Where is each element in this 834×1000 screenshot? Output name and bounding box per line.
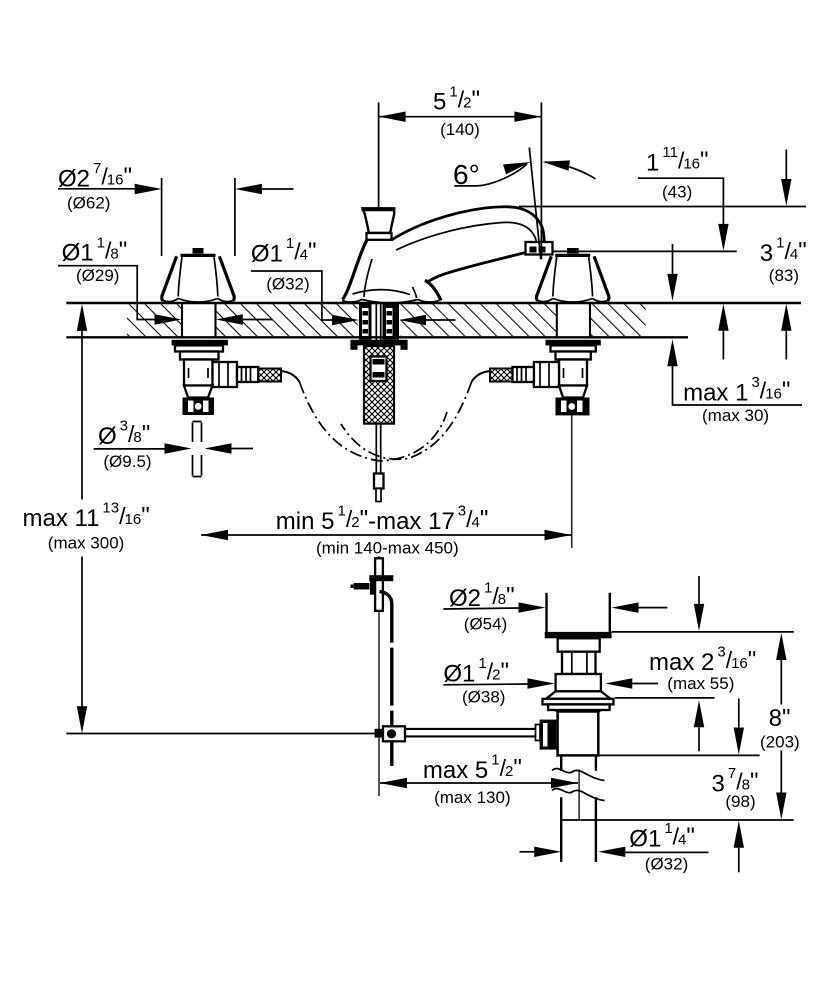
drain scallops bbox=[555, 710, 602, 713]
left valve hex nut bbox=[183, 398, 215, 416]
left handle bell bbox=[162, 255, 234, 302]
spout base bbox=[342, 240, 441, 303]
pipe break waves bbox=[552, 769, 605, 801]
tee bottom reference line bbox=[598, 754, 759, 756]
svg-text:(max 300): (max 300) bbox=[48, 534, 125, 553]
handle width extension lines bbox=[161, 178, 163, 256]
svg-text:(max 55): (max 55) bbox=[667, 674, 734, 693]
aerator bbox=[526, 242, 553, 255]
drain lower band bbox=[548, 704, 610, 710]
right valve body bbox=[559, 360, 587, 386]
spout lift-rod knob bbox=[363, 209, 395, 234]
drain flare bbox=[546, 691, 611, 699]
drain flange cup bbox=[547, 593, 610, 632]
left valve tier3 bbox=[180, 352, 219, 360]
svg-text:6°: 6° bbox=[453, 159, 480, 190]
horizontal rod clamp bbox=[375, 726, 405, 741]
svg-text:(98): (98) bbox=[725, 792, 755, 811]
dim 3 1/4 arrows bbox=[785, 150, 787, 180]
pop-up hole symbol bbox=[193, 422, 202, 477]
right braided hose crimp bbox=[490, 369, 513, 382]
left valve tier2 bbox=[175, 345, 223, 351]
flange underside reference line bbox=[612, 631, 794, 633]
drain tailpipe bbox=[561, 755, 596, 862]
drain threaded tube bbox=[562, 652, 596, 674]
drain neck bbox=[558, 638, 600, 651]
dim 5 1/2 line bbox=[379, 116, 542, 118]
right valve cone bbox=[559, 386, 587, 398]
left hole wall lines bbox=[181, 304, 183, 337]
dim 3 7/8 arrows bbox=[738, 699, 740, 728]
left hose curve solid bbox=[281, 371, 300, 382]
right hose swing curve (dash-dot) bbox=[341, 382, 472, 459]
svg-text:(140): (140) bbox=[440, 120, 480, 139]
spout knob collar bbox=[367, 233, 392, 240]
right valve hex nut bbox=[556, 398, 590, 416]
spout shank left stud bbox=[359, 304, 372, 340]
rod reference line bbox=[66, 733, 374, 735]
pivot nut bbox=[540, 720, 562, 750]
left handle knob bbox=[193, 248, 204, 254]
right handle knob bbox=[567, 248, 579, 254]
drain washer bbox=[543, 699, 614, 705]
right hose curve solid bbox=[472, 371, 491, 382]
svg-text:(Ø32): (Ø32) bbox=[266, 275, 309, 294]
dim max 11 13/16 line bbox=[77, 304, 87, 733]
svg-text:(max 130): (max 130) bbox=[434, 788, 511, 807]
horizontal pop-up rod bbox=[405, 725, 540, 741]
6 degree arc right bbox=[545, 162, 596, 179]
hole for right handle shank bbox=[557, 303, 590, 337]
svg-text:(Ø38): (Ø38) bbox=[462, 688, 505, 707]
dim 1 11/16 leader bbox=[638, 178, 723, 224]
dim O1 1/4 top leader bbox=[251, 271, 332, 320]
dim O3/8 leader and arrows bbox=[94, 448, 165, 450]
dim O1 1/8 leader bbox=[58, 266, 155, 320]
dim O2 1/8 leader and arrows bbox=[443, 608, 518, 609]
left valve body bbox=[184, 360, 213, 386]
lift rod clamp screw bbox=[370, 578, 376, 594]
pipe centre line bbox=[578, 770, 580, 821]
dim min-max line bbox=[201, 534, 572, 536]
dim max 5 1/2 line bbox=[380, 782, 578, 784]
spout flange below deck bbox=[350, 340, 407, 350]
spout top reference line A bbox=[519, 206, 806, 208]
spout shank right stud bbox=[383, 304, 400, 340]
svg-text:(Ø9.5): (Ø9.5) bbox=[103, 452, 151, 471]
spout body bbox=[392, 207, 545, 248]
right valve flange bbox=[546, 340, 601, 346]
svg-text:(203): (203) bbox=[760, 733, 800, 752]
dim max 1 3/16 arrows bbox=[672, 244, 674, 274]
right valve tier2 bbox=[551, 345, 596, 351]
hole for left handle shank bbox=[182, 303, 216, 337]
spout inner line bbox=[396, 222, 536, 250]
lift rod crossbar bbox=[369, 575, 393, 581]
drain locknut bbox=[556, 674, 601, 691]
pop-up rod below hose bbox=[374, 424, 384, 502]
right valve hose adapter bbox=[513, 367, 534, 382]
6 degree slant line bbox=[529, 148, 541, 260]
svg-text:(Ø32): (Ø32) bbox=[645, 855, 688, 874]
countertop hatch section bbox=[127, 304, 646, 336]
left valve cone bbox=[184, 386, 213, 398]
right valve axis extension bbox=[571, 415, 573, 548]
left braided hose crimp bbox=[258, 369, 281, 382]
right valve tier3 bbox=[556, 352, 591, 360]
dim 5 1/2 arrows bbox=[379, 112, 406, 122]
countertop top line bbox=[66, 302, 801, 304]
6 degree leader arc left bbox=[454, 164, 527, 186]
left valve hose adapter bbox=[237, 367, 258, 382]
svg-text:111/16": 111/16" bbox=[646, 144, 709, 176]
lift rod (bent, dashed) bbox=[380, 592, 392, 767]
dim O1 1/2 leader and arrows bbox=[443, 683, 527, 686]
lift rod side pin bbox=[351, 583, 370, 590]
svg-text:(83): (83) bbox=[769, 266, 799, 285]
svg-text:(Ø54): (Ø54) bbox=[464, 614, 507, 633]
hole for spout shank bbox=[358, 303, 401, 337]
dim 5 1/2 extension line left bbox=[378, 102, 380, 208]
svg-text:8": 8" bbox=[769, 704, 791, 732]
central braided supply hose bbox=[364, 346, 394, 424]
rod axis extension line bbox=[378, 556, 380, 558]
dim max 2 3/16 arrows bbox=[698, 576, 700, 604]
dim 5 1/2 extension line right bbox=[540, 102, 542, 259]
washer reference line bbox=[615, 697, 715, 699]
drain tee body bbox=[558, 712, 599, 756]
drain flange lip (black band) bbox=[545, 632, 612, 638]
dim O1 1/4 bottom arrows bbox=[520, 851, 535, 853]
countertop bottom line bbox=[66, 336, 688, 338]
right valve outlet compression nut bbox=[534, 362, 559, 387]
lift rod strap bbox=[375, 558, 383, 611]
svg-text:(min 140-max 450): (min 140-max 450) bbox=[316, 539, 459, 558]
spout underside bbox=[427, 253, 526, 283]
right handle bell bbox=[536, 255, 608, 302]
hose window fitting bbox=[371, 357, 387, 382]
svg-text:(43): (43) bbox=[662, 183, 692, 202]
dim 8 inch line bbox=[776, 633, 786, 820]
svg-text:(max 30): (max 30) bbox=[702, 406, 769, 425]
left valve outlet compression nut bbox=[213, 362, 238, 387]
svg-text:(Ø29): (Ø29) bbox=[76, 266, 119, 285]
spout outlet reference line B bbox=[552, 250, 737, 252]
right hole wall lines bbox=[556, 304, 558, 337]
left valve flange bbox=[172, 340, 228, 346]
pipe end reference line bbox=[561, 819, 794, 821]
svg-text:(Ø62): (Ø62) bbox=[67, 194, 110, 213]
dim O2 7/16 leader and arrows bbox=[58, 188, 135, 190]
left hose swing curve (dash-dot) bbox=[300, 382, 448, 461]
pop-up rod inside shank bbox=[375, 304, 377, 346]
